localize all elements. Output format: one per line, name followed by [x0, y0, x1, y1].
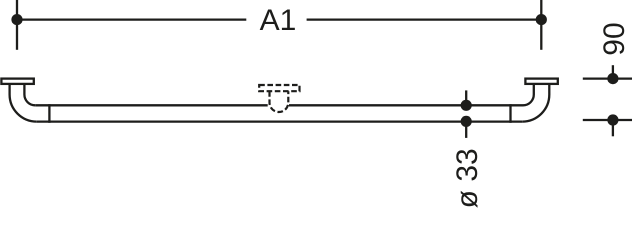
diameter leader lower stub [465, 121, 467, 137]
dimension 90 upper dot [607, 73, 618, 84]
grab bar left weld seam [48, 104, 50, 123]
grab bar left bend inner contour [24, 84, 35, 105]
svg-text:A1: A1 [260, 4, 297, 37]
concealed fixing dashed pocket [270, 91, 289, 112]
grab bar right wall flange [525, 79, 557, 84]
dimension A1 right extension line [540, 0, 542, 50]
diameter leader top dot [461, 100, 472, 111]
grab bar right bend inner contour [523, 84, 534, 105]
dimension A1 line left segment [17, 18, 246, 20]
diameter leader upper stub [465, 90, 467, 105]
dimension 90 lower dot [607, 114, 618, 125]
grab bar left wall flange [1, 79, 33, 84]
dimension A1 left extension line [16, 0, 18, 50]
concealed fixing dashed plate [259, 85, 299, 91]
grab bar tube top line left part [35, 104, 268, 106]
grab bar left bend outer contour [10, 84, 37, 122]
dimension A1 right dot [536, 14, 547, 25]
svg-text:ø 33: ø 33 [451, 148, 484, 208]
dimension 90 upper stub [612, 65, 614, 78]
grab bar tube bottom line [37, 120, 523, 122]
svg-text:90: 90 [598, 22, 631, 55]
dimension A1 line right segment [307, 18, 542, 20]
grab bar tube top line right part [289, 104, 523, 106]
grab bar right weld seam [509, 104, 511, 123]
grab bar right bend outer contour [522, 84, 549, 122]
diameter leader bottom dot [461, 116, 472, 127]
dimension 90 upper tick line [583, 77, 632, 79]
dimension 90 lower tick line [583, 119, 632, 121]
dimension A1 left dot [11, 14, 22, 25]
dimension 90 lower stub [612, 120, 614, 136]
